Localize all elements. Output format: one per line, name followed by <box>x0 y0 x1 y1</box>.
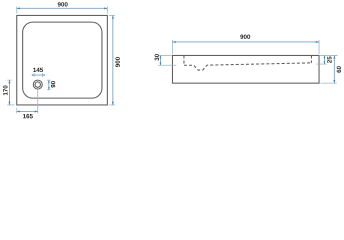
hidden inner wall right (dashed) <box>310 55 312 62</box>
dim 30: label <box>155 54 159 61</box>
dim 60 side right: extension tick bottom <box>320 82 336 84</box>
dim 90: dimension line <box>48 80 50 90</box>
dim 90: arrowheads <box>48 80 50 83</box>
dim 900 right: extension lines <box>109 14 115 16</box>
dim 900 right: arrowheads <box>112 15 114 18</box>
dim 25: label <box>327 56 331 63</box>
dim 145 drain: extension lines <box>33 73 35 77</box>
dim 170: arrowheads <box>8 80 10 83</box>
dim 900 side: label <box>240 35 250 39</box>
dim 90 drain: extension ticks <box>47 79 51 81</box>
dim 170: label <box>3 85 7 95</box>
dim 900 side: dimension line <box>172 41 319 43</box>
dim 165: dimension line <box>17 110 38 112</box>
dim 900 top: arrowheads <box>17 7 20 9</box>
drain inner circle <box>35 82 40 87</box>
dim 900 right: dimension line <box>112 15 114 105</box>
shower tray outer square (top view) <box>17 15 108 105</box>
dim 900 side: extension lines <box>171 40 173 54</box>
dim 30: dimension line <box>159 55 161 65</box>
dim 165 bottom: extension lines <box>16 108 18 114</box>
dim 170 left: extension ticks <box>7 79 11 81</box>
dim 25: dimension line <box>323 55 325 64</box>
hidden basin floor with drain sump (dashed) <box>184 63 312 70</box>
dim 60: arrowheads <box>333 55 335 58</box>
dim 25: arrowheads <box>324 55 326 58</box>
dim 25 side right: extension ticks <box>320 54 337 56</box>
drain outer circle <box>33 80 42 89</box>
dim 900 top: label <box>58 2 68 6</box>
dim 900 right: label <box>115 57 119 67</box>
dim 145: dimension line with outside tails <box>32 74 44 76</box>
dim 900 top: extension lines <box>16 6 18 13</box>
dim 60: label <box>337 66 341 72</box>
dim 900 top: dimension line <box>17 7 108 9</box>
dim 900 side: arrowheads <box>172 41 175 43</box>
hidden inner wall left (dashed) <box>183 55 185 65</box>
dim 170: dimension line <box>8 80 10 105</box>
dim 30: arrowheads <box>160 55 162 58</box>
basin inner rounded rect <box>23 22 102 98</box>
dim 165: arrowheads <box>17 110 20 112</box>
dim 145: arrowheads (outside, tips at extension lines) <box>32 74 34 76</box>
dim 145: label <box>33 68 43 72</box>
side view outer profile rectangle <box>172 55 319 83</box>
dim 30 side left: extension ticks <box>158 54 172 56</box>
dim 165: label <box>23 114 33 118</box>
dim 60: dimension line <box>333 55 335 83</box>
dim 90: label <box>51 81 55 87</box>
